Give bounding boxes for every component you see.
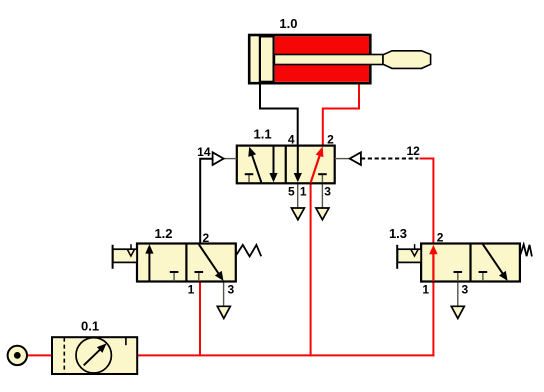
pilot 14 triangle [213, 152, 237, 165]
valve 1.1 left position flow arrows [245, 146, 278, 183]
label 0.1 [81, 319, 99, 334]
port label 3 of valve 1.2 [228, 283, 235, 297]
svg-text:1: 1 [188, 283, 195, 297]
port label 4 [288, 133, 295, 147]
wire valve 1.2 port 2 to pilot 14 [200, 159, 212, 245]
port label 12 [406, 144, 420, 158]
valve 1.1 body [237, 146, 335, 184]
wire supply bus [27, 354, 434, 356]
svg-text:1.2: 1.2 [154, 226, 172, 241]
svg-text:3: 3 [228, 283, 235, 297]
compressed air source [8, 346, 27, 365]
svg-text:14: 14 [197, 145, 211, 159]
port label 2 of valve 1.1 [327, 133, 334, 147]
wire branch to valve 1.3 port 1 [432, 281, 434, 356]
svg-text:1: 1 [300, 184, 307, 198]
svg-text:1.3: 1.3 [389, 226, 407, 241]
service unit 0.1 [52, 337, 137, 374]
valve 1.3 return spring compressed [520, 245, 532, 257]
wire cylinder cap side to valve 1.1 port 4 [260, 83, 298, 147]
wire valve 1.3 port 3 to exhaust [457, 282, 459, 307]
valve 1.3 manual detent actuator [397, 244, 421, 269]
port label 3 of valve 1.1 [324, 184, 331, 198]
wire valve 1.2 port 3 to exhaust [223, 282, 225, 307]
svg-text:2: 2 [327, 133, 334, 147]
pilot line 12 dashed [361, 158, 418, 160]
port label 1 of valve 1.2 [188, 283, 195, 297]
pilot 12 triangle [335, 152, 361, 165]
valve 1.1 active position 1-2 red arrow [311, 146, 324, 182]
svg-text:1.1: 1.1 [254, 127, 272, 142]
label 1.3 [389, 226, 407, 241]
svg-text:1.0: 1.0 [279, 16, 297, 31]
exhaust triangle port 3 of valve 1.3 [451, 306, 464, 318]
svg-text:3: 3 [324, 184, 331, 198]
exhaust triangle port 3 of valve 1.1 [316, 208, 329, 220]
port label 1 of valve 1.1 [300, 184, 307, 198]
port label 2 of valve 1.2 [203, 231, 210, 245]
valve 1.3 body [421, 244, 520, 282]
port label 5 [288, 184, 295, 198]
wire valve 1.3 port 2 to pilot 12 [420, 159, 434, 245]
label 1.2 [154, 226, 172, 241]
wire branch to valve 1.2 port 1 [199, 281, 201, 356]
port label 2 of valve 1.3 [437, 230, 444, 244]
wire valve 1.1 port 5 to exhaust [297, 184, 299, 209]
label 1.0 [279, 16, 297, 31]
cylinder 1.0 [249, 35, 430, 83]
valve 1.1 active position 4-5 arrow and blocked 3 [294, 146, 327, 183]
svg-text:0.1: 0.1 [81, 319, 99, 334]
svg-text:4: 4 [288, 133, 295, 147]
wire cylinder rod side to valve 1.1 port 2 [323, 83, 359, 147]
wire valve 1.1 port 3 to exhaust [321, 184, 323, 209]
exhaust triangle port 5 [291, 208, 304, 220]
valve 1.3 active position 1-2 red arrow [429, 245, 462, 282]
valve 1.2 rest position 2-3 arrow [195, 244, 224, 281]
svg-text:2: 2 [203, 231, 210, 245]
svg-text:5: 5 [288, 184, 295, 198]
svg-text:3: 3 [462, 283, 469, 297]
svg-text:12: 12 [406, 144, 420, 158]
wire branch to valve 1.1 port 1 [310, 183, 312, 356]
port label 1 of valve 1.3 [422, 283, 429, 297]
port label 3 of valve 1.3 [462, 283, 469, 297]
exhaust triangle port 3 of valve 1.2 [217, 306, 230, 318]
valve 1.2 return spring [236, 245, 261, 257]
valve 1.2 left position 1-2 arrow [145, 244, 178, 281]
svg-text:2: 2 [437, 230, 444, 244]
valve 1.2 manual detent actuator [113, 244, 137, 269]
svg-text:1: 1 [422, 283, 429, 297]
port label 14 [197, 145, 211, 159]
valve 1.2 body [137, 244, 236, 282]
valve 1.3 other position 2-3 arrow [479, 244, 508, 281]
label 1.1 [254, 127, 272, 142]
